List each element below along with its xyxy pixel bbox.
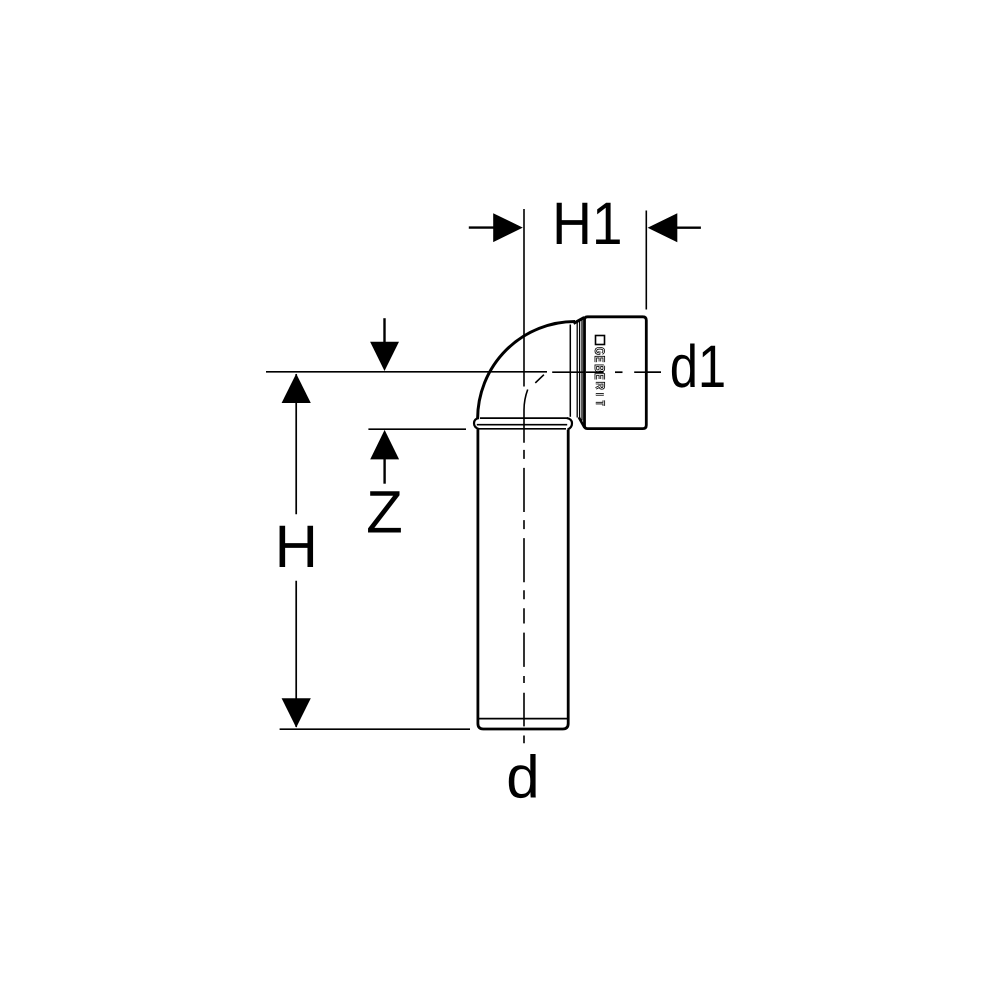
weld bead left cap [474,418,479,429]
H dimension line lower segment [295,581,297,727]
Z top arrow pointing down [383,318,385,344]
horizontal centerline d1 dash short [615,371,623,373]
vertical centerline dashes in pipe [523,450,525,743]
socket ring top chamfer [574,317,585,323]
Z bottom arrow pointing up [370,430,399,460]
socket ring inner vertical line [569,325,571,417]
weld bead right bump [567,418,572,430]
bend centerline 45 degree dash [535,375,544,383]
GEBERIT logo letters [596,348,604,353]
H dimension down arrow [282,698,311,727]
weld bead mid line [477,424,567,426]
svg-text:d: d [506,744,539,811]
svg-text:d1: d1 [670,333,727,400]
horizontal centerline d1 dash end [634,371,661,373]
pipe end chamfer line [479,718,567,720]
svg-text:H: H [275,513,318,580]
pipe outline [478,429,568,729]
horizontal centerline d1 dash long [552,371,603,373]
vertical pipe centerline / H1 left extension line [523,209,525,387]
GEBERIT logo square [596,336,605,406]
socket ring line 1 [576,322,578,418]
weld bead bottom line [479,428,566,430]
H1 left arrow [469,226,494,228]
H1 right arrow [677,226,701,228]
horizontal centerline d1 (axis of socket) solid left portion [266,371,547,373]
H1 right extension line [645,211,647,310]
socket ring bottom chamfer [579,417,585,428]
H dimension up arrow [282,374,311,403]
socket ring line 2 [579,320,581,419]
Z extension line (socket bottom level) [368,428,466,430]
H dimension line upper segment [295,374,297,514]
d1 centerline dash inside socket repaint [586,371,604,373]
elbow outer arc [478,322,575,420]
svg-text:Z: Z [366,479,403,546]
bend centerline curved long dash into pipe [524,390,528,443]
svg-text:H1: H1 [552,190,622,257]
socket body [585,317,647,429]
weld bead top line [480,417,567,419]
socket ring line 3 [581,319,583,421]
H bottom extension line (pipe bottom level) [280,728,470,730]
